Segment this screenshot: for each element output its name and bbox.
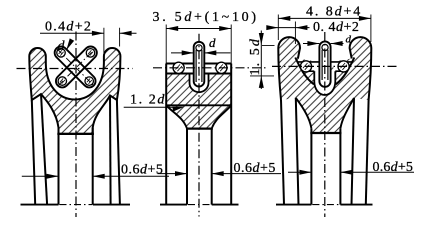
svg-text:d: d <box>346 34 352 46</box>
svg-text:d: d <box>58 39 66 54</box>
bore shoulder line <box>57 133 94 135</box>
rope strand circle right <box>338 61 349 72</box>
dimension d (fig2 slot width) <box>171 35 231 56</box>
dimension 1.5d (vertical, between fig2 and fig3) <box>248 31 275 90</box>
fig3 vertical centerline <box>324 32 326 217</box>
pin boss outline <box>190 74 209 93</box>
body outline <box>278 37 371 100</box>
dimension 0.4d+2 (fig1 top) <box>40 19 137 53</box>
dimension 0.6d+5 (fig2 bottom) <box>158 161 282 176</box>
bore shoulder line <box>310 132 341 134</box>
fig3 bottom break line <box>276 204 373 206</box>
stem bore walls <box>187 129 212 205</box>
fig2 bottom break line <box>160 204 239 206</box>
pin boss outline <box>314 71 335 95</box>
dimension 0.6d+5 (fig1 bottom) <box>22 162 169 178</box>
white pin boss interior <box>314 71 335 95</box>
svg-text:0. 4d+2: 0. 4d+2 <box>313 20 359 35</box>
bowl inner arc <box>295 58 354 85</box>
slot A axis centerline <box>57 49 94 86</box>
dimension 4.8d+4 (fig3 top) <box>278 4 371 42</box>
right leg outer edge <box>117 100 120 205</box>
svg-text:0.6d+5: 0.6d+5 <box>121 162 163 177</box>
dimension 3.5d+(1~10) (fig2 top) <box>153 10 259 64</box>
right leg outer edge <box>366 100 369 205</box>
block body section (hatched) <box>166 74 231 129</box>
right leg inner edge <box>352 98 355 205</box>
pin ledge lines <box>297 62 352 71</box>
dimension 0.6d+5 (fig3 bottom) <box>288 160 414 175</box>
svg-text:0.4d+2: 0.4d+2 <box>45 19 92 34</box>
dimension d (fig3 slot width) <box>303 34 352 47</box>
left leg outer edge <box>281 100 284 205</box>
funnel bell curves <box>296 98 354 129</box>
left leg inner edge <box>41 94 47 205</box>
cotter loop inside slot <box>322 44 328 80</box>
slot (stadium) white fill <box>319 41 330 87</box>
slot (stadium) white fill <box>194 42 205 87</box>
rope strand circle right <box>216 62 227 73</box>
fig1 bottom break line <box>21 204 131 206</box>
left leg outer edge <box>32 100 35 205</box>
rope strand circle upper-left <box>57 49 66 58</box>
fork body section (hatched) <box>29 48 120 134</box>
rope strand circle upper-right <box>86 49 95 58</box>
rope strand circle lower-left <box>58 77 67 86</box>
cotter loop inside slot <box>196 45 202 82</box>
left leg inner edge <box>296 98 299 205</box>
label 1.2d with leader (fig2) <box>124 93 185 112</box>
rope strand circle lower-right <box>85 77 94 86</box>
svg-text:4. 8d+4: 4. 8d+4 <box>306 4 362 19</box>
svg-text:1. 5d: 1. 5d <box>248 37 263 76</box>
pin horizontal centerline <box>153 67 268 69</box>
stem bore walls <box>59 128 93 205</box>
fork body section (hatched) <box>278 37 371 133</box>
fig3 horizontal centerline <box>272 65 399 67</box>
label d with leader (fig1) <box>58 38 75 53</box>
block outline <box>166 64 231 106</box>
crossed slot A (upper-left to lower-right) <box>52 44 98 90</box>
fig2 vertical centerline <box>198 34 200 217</box>
svg-text:1. 2d: 1. 2d <box>130 93 166 108</box>
block / leg side walls <box>166 64 231 205</box>
svg-text:d: d <box>209 35 216 50</box>
funnel bell curves <box>166 105 231 128</box>
rope strand circle left <box>300 61 311 72</box>
stem bore walls <box>311 129 340 205</box>
svg-text:3. 5d+(1~10): 3. 5d+(1~10) <box>153 10 259 25</box>
slot B axis centerline <box>58 48 95 85</box>
rope strand circle left <box>173 62 184 73</box>
dimension 0.4d+2 (fig3) <box>266 20 359 44</box>
white pin ledge strips <box>297 62 352 71</box>
right leg inner edge <box>109 96 112 205</box>
bore shoulder line <box>186 128 213 130</box>
crossed slot B (lower-left to upper-right) <box>53 44 99 90</box>
fig1 vertical centerline <box>75 32 77 218</box>
fig1 horizontal centerline <box>17 68 133 70</box>
